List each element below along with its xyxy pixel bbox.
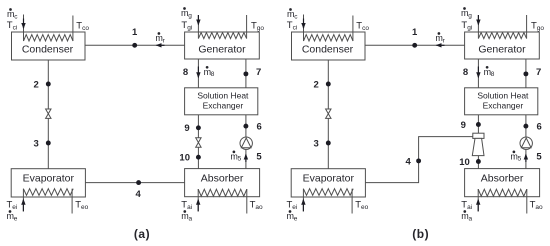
condenser box (b) [292, 32, 366, 60]
svg-text:9: 9 [461, 120, 466, 131]
evaporator chilled-water inlet line (a) [22, 189, 24, 212]
svg-text:Solution Heat: Solution Heat [197, 91, 249, 101]
wire absorber to pump (b) [525, 149, 527, 168]
label mg (b) [461, 7, 472, 19]
svg-text:5: 5 [256, 151, 262, 162]
wire generator to condenser (a) [85, 44, 185, 46]
generator box (b) [465, 32, 540, 59]
wire SHX to pump (a) [245, 115, 247, 137]
node 1 (a) [132, 43, 137, 48]
svg-text:co: co [82, 25, 89, 32]
solution heat exchanger box (b) [465, 88, 538, 115]
svg-text:8: 8 [491, 71, 495, 78]
condenser coolant outlet line (a) [72, 16, 74, 42]
solution pump (a) [240, 137, 252, 149]
svg-text:10: 10 [459, 157, 470, 168]
svg-text:10: 10 [179, 153, 190, 164]
svg-text:ci: ci [293, 24, 298, 31]
wire absorber to pump (a) [245, 149, 247, 168]
node 7 (a) [243, 71, 248, 76]
label Tco (b) [356, 20, 369, 32]
svg-text:5: 5 [536, 151, 542, 162]
wire expansion valve to evaporator (a) [47, 118, 49, 168]
node 4 (b) [416, 158, 421, 163]
label Tai (b) [461, 200, 472, 212]
label ma (b) [461, 210, 472, 222]
svg-text:Absorber: Absorber [201, 172, 244, 184]
condenser box (a) [12, 32, 86, 60]
flow arrow m8 (b) [476, 67, 480, 79]
svg-text:Exchanger: Exchanger [483, 101, 524, 111]
label mg (a) [181, 7, 192, 19]
wire SHX to generator strong solution (b) [525, 59, 527, 88]
svg-text:4: 4 [136, 189, 142, 200]
label m8 (b) [484, 66, 495, 78]
absorber coolant inlet line (a) [197, 189, 199, 211]
svg-text:Generator: Generator [478, 43, 526, 55]
svg-text:8: 8 [211, 71, 215, 78]
svg-text:gi: gi [467, 24, 472, 31]
absorber inlet arrow ma (a) [196, 199, 200, 212]
node 9 (b) [476, 122, 481, 127]
evaporator box (b) [291, 169, 365, 197]
svg-text:9: 9 [184, 123, 189, 134]
node 10 (a) [196, 155, 201, 160]
label m5 (b) [510, 151, 521, 163]
generator coil (b) [478, 33, 526, 39]
solution expansion valve (a) [196, 138, 201, 147]
refrigerant flow arrow mr (b) [436, 43, 445, 47]
flow arrow m5 node 5 (b) [524, 154, 528, 163]
absorber coolant outlet line (b) [526, 189, 528, 214]
node 2 (a) [46, 82, 51, 87]
wire generator to SHX weak solution (a) [197, 59, 199, 88]
svg-text:Absorber: Absorber [481, 172, 524, 184]
absorber coolant inlet line (b) [477, 189, 479, 211]
absorber coil (a) [198, 189, 247, 196]
label mr (a) [155, 32, 165, 44]
node 1 (b) [412, 43, 417, 48]
label ma (a) [181, 210, 192, 222]
label Tei (a) [7, 200, 18, 212]
svg-text:(a): (a) [134, 227, 150, 241]
svg-text:Generator: Generator [198, 43, 246, 55]
label Teo (a) [75, 200, 88, 212]
node 3 (b) [326, 141, 331, 146]
svg-text:ao: ao [255, 204, 263, 211]
label me (a) [7, 210, 18, 222]
flow arrow m5 node 5 (a) [244, 154, 248, 163]
label Tao (b) [530, 200, 543, 212]
label Tci (a) [7, 20, 18, 32]
svg-text:7: 7 [536, 67, 541, 78]
wire generator to SHX weak solution (b) [477, 59, 479, 88]
evaporator inlet arrow me (a) [21, 199, 25, 212]
label Tgi (a) [181, 20, 192, 32]
generator heat inlet line (b) [477, 15, 479, 39]
label Tei (b) [287, 200, 298, 212]
svg-text:1: 1 [132, 27, 138, 38]
svg-text:Exchanger: Exchanger [203, 101, 244, 111]
svg-text:(b): (b) [412, 227, 429, 241]
svg-text:Condenser: Condenser [302, 43, 354, 55]
label mc (a) [7, 8, 18, 20]
node 7 (b) [523, 71, 528, 76]
svg-text:8: 8 [183, 67, 188, 78]
wire condenser to expansion valve (b) [327, 60, 329, 109]
svg-text:2: 2 [314, 79, 319, 90]
svg-text:co: co [362, 25, 369, 32]
wire expansion valve to evaporator (b) [327, 118, 329, 168]
wire evaporator to absorber (a) [85, 182, 184, 184]
absorber inlet arrow ma (b) [476, 199, 480, 212]
generator heat inlet line (a) [197, 15, 199, 39]
svg-text:2: 2 [34, 79, 39, 90]
generator heat inlet arrow mg (b) [476, 15, 480, 26]
svg-text:g: g [468, 12, 472, 19]
condenser coolant inlet arrow mc (a) [21, 19, 25, 30]
label Tgo (b) [531, 20, 544, 32]
label Tgi (b) [461, 20, 472, 32]
svg-text:Condenser: Condenser [22, 43, 74, 55]
generator heat outlet line (b) [526, 15, 528, 39]
generator coil (a) [198, 33, 246, 39]
wire ejector to absorber (b) [477, 156, 479, 169]
label Tai (a) [181, 200, 192, 212]
svg-text:ci: ci [13, 24, 18, 31]
expansion valve refrigerant (b) [326, 109, 331, 118]
wire valve to absorber (a) [197, 147, 199, 168]
svg-text:6: 6 [537, 121, 542, 132]
wire SHX to pump (b) [525, 115, 527, 137]
svg-text:eo: eo [361, 204, 369, 211]
svg-text:3: 3 [314, 139, 319, 150]
generator box (a) [185, 32, 260, 59]
wire SHX to ejector (b) [477, 115, 479, 134]
flow arrow m8 (a) [196, 67, 200, 79]
label mc (b) [287, 8, 298, 20]
node 4 (a) [136, 180, 141, 185]
svg-text:a: a [189, 215, 193, 222]
node 6 (a) [243, 124, 248, 129]
condenser coolant inlet arrow mc (b) [301, 19, 305, 30]
node 10 (b) [476, 159, 481, 164]
generator heat outlet line (a) [246, 15, 248, 39]
solution heat exchanger box (a) [185, 88, 258, 115]
label mr (b) [435, 32, 445, 44]
svg-text:ao: ao [535, 204, 543, 211]
svg-text:4: 4 [406, 157, 412, 168]
expansion valve refrigerant (a) [46, 109, 51, 118]
wire SHX to generator strong solution (a) [245, 59, 247, 88]
svg-text:Evaporator: Evaporator [303, 172, 355, 184]
svg-text:e: e [14, 215, 18, 222]
absorber coolant outlet line (a) [246, 189, 248, 214]
label Tci (b) [287, 20, 298, 32]
evaporator inlet arrow me (b) [301, 199, 305, 212]
label me (b) [287, 210, 298, 222]
label Tao (a) [250, 200, 263, 212]
label Tgo (a) [251, 20, 264, 32]
svg-text:gi: gi [187, 24, 192, 31]
evaporator chilled-water inlet line (b) [302, 189, 304, 212]
solution pump (b) [520, 137, 532, 149]
svg-text:Evaporator: Evaporator [23, 172, 75, 184]
absorber coil (b) [478, 189, 527, 196]
svg-text:3: 3 [34, 139, 39, 150]
svg-text:e: e [294, 215, 298, 222]
condenser coil (a) [24, 35, 74, 41]
absorber box (a) [185, 169, 260, 197]
svg-text:g: g [188, 12, 192, 19]
label m5 (a) [230, 151, 241, 163]
svg-text:Solution Heat: Solution Heat [477, 91, 529, 101]
jet ejector mixing chamber (b) [473, 133, 484, 138]
wire condenser to expansion valve (a) [47, 60, 49, 109]
node 6 (b) [523, 124, 528, 129]
wire SHX to solution expansion valve (a) [197, 115, 199, 138]
svg-text:5: 5 [238, 156, 242, 163]
wire evaporator to ejector suction (b) [365, 137, 472, 183]
jet ejector diffuser (b) [472, 138, 484, 155]
condenser coolant inlet line (b) [303, 15, 305, 42]
node 3 (a) [46, 141, 51, 146]
svg-text:go: go [537, 25, 545, 32]
evaporator box (a) [11, 169, 85, 197]
evaporator coil (a) [23, 189, 73, 196]
evaporator chilled-water outlet line (b) [351, 189, 353, 214]
condenser coolant outlet line (b) [352, 16, 354, 42]
label Tco (a) [76, 20, 89, 32]
svg-text:8: 8 [463, 67, 468, 78]
label Teo (b) [355, 200, 368, 212]
svg-text:eo: eo [81, 204, 89, 211]
node 2 (b) [326, 82, 331, 87]
evaporator chilled-water outlet line (a) [71, 189, 73, 214]
svg-text:5: 5 [518, 156, 522, 163]
node 9 (a) [196, 125, 201, 130]
refrigerant flow arrow mr (a) [156, 43, 165, 47]
condenser coil (b) [304, 35, 354, 41]
generator heat inlet arrow mg (a) [196, 15, 200, 26]
svg-text:a: a [469, 215, 473, 222]
condenser coolant inlet line (a) [23, 15, 25, 42]
svg-text:go: go [257, 25, 265, 32]
evaporator coil (b) [303, 189, 353, 196]
svg-text:7: 7 [256, 67, 261, 78]
wire generator to condenser (b) [365, 44, 465, 46]
absorber box (b) [465, 169, 540, 197]
svg-text:1: 1 [412, 27, 418, 38]
label m8 (a) [204, 66, 215, 78]
svg-text:6: 6 [257, 121, 262, 132]
